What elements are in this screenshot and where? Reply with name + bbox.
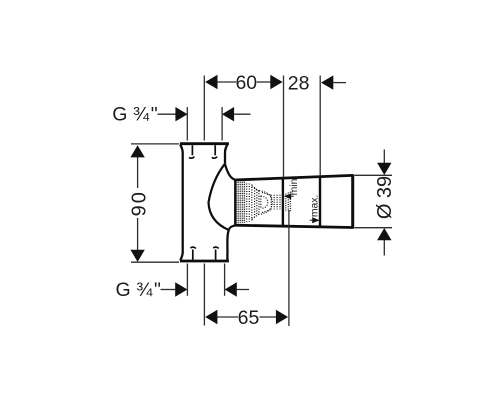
- valve body barrel bottom flange: [180, 260, 229, 263]
- dimension 60 left arrow: [205, 75, 217, 89]
- spindle stem dotted threads: [271, 192, 290, 212]
- boss junction ear curve: [225, 164, 236, 180]
- dimension dia39 up arrow: [377, 228, 391, 240]
- dimension 28 right extension line: [319, 76, 321, 177]
- cartridge left face: [234, 179, 236, 226]
- G3/4 top right extension line: [221, 107, 223, 141]
- dimension 65 right arrow: [276, 310, 288, 324]
- G3/4 top left arrow: [175, 107, 187, 121]
- cartridge min plane line: [282, 178, 284, 226]
- svg-text:90: 90: [129, 190, 151, 216]
- cartridge bottom edge: [234, 225, 353, 227]
- dimension 90 down arrow: [130, 250, 144, 262]
- min arrow: [284, 193, 291, 199]
- boss bottom fillet: [229, 225, 236, 230]
- thread mark hook top right: [214, 145, 216, 155]
- svg-text:65: 65: [238, 307, 260, 329]
- svg-text:min.: min.: [289, 176, 300, 196]
- spindle stipple second band dotted columns: [247, 184, 252, 222]
- dimension dia39 bottom extension line: [355, 227, 393, 229]
- thread mark hook bottom right: [215, 250, 217, 260]
- svg-text:G ¾ ": G ¾ ": [112, 103, 157, 125]
- svg-text:60: 60: [235, 72, 257, 94]
- G3/4 bottom right arrow: [225, 282, 237, 296]
- dimension 65 right extension line: [288, 210, 290, 326]
- dimension 60/28 middle extension line: [283, 76, 285, 178]
- dimension 90 bottom extension line: [131, 261, 179, 263]
- spindle stipple dense band: [236, 180, 245, 223]
- svg-text:28: 28: [288, 73, 310, 95]
- dimension 90 dimension line: [137, 157, 139, 189]
- svg-text:Ø 39: Ø 39: [374, 176, 396, 219]
- spindle dotted bell: [252, 186, 272, 219]
- dimension 60 dimension line tails: [217, 81, 236, 83]
- dimension 60 left extension line: [203, 76, 205, 141]
- G3/4 top left extension line: [186, 107, 188, 141]
- dimension dia39 upper line: [383, 150, 385, 164]
- dimension 28 outside arrow: [321, 75, 333, 89]
- thread mark hook bottom left: [192, 250, 194, 260]
- G3/4 bottom right extension line: [224, 264, 226, 296]
- dimension 90 up arrow: [130, 145, 144, 157]
- dimension 65 left arrow: [205, 310, 217, 324]
- dimension 60 right arrow: [270, 75, 282, 89]
- valve body barrel right edge upper: [225, 145, 227, 164]
- G3/4 bottom left arrow: [175, 282, 187, 296]
- cartridge right face: [351, 174, 354, 228]
- dimension dia39 down arrow: [377, 163, 391, 175]
- dimension 65 left extension line (pipe axis): [203, 264, 205, 326]
- valve body barrel right edge lower: [227, 230, 228, 260]
- dimension 90 top extension line: [131, 143, 179, 145]
- dimension dia39 lower line: [383, 240, 385, 256]
- valve body barrel left edge: [180, 145, 182, 261]
- max arrow: [312, 217, 319, 223]
- svg-text:max.: max.: [310, 195, 321, 218]
- G3/4 top right arrow: [222, 107, 234, 121]
- cartridge top edge: [234, 175, 353, 180]
- dimension 65 dimension line tails: [217, 316, 238, 318]
- thread mark hook top left: [191, 145, 193, 155]
- svg-text:G ¾ ": G ¾ ": [116, 279, 161, 301]
- G3/4 bottom left extension line: [186, 264, 188, 296]
- valve body barrel top flange: [180, 142, 229, 145]
- dimension dia39 top extension line: [355, 174, 393, 176]
- boss saddle curve: [209, 164, 229, 230]
- cartridge max plane line: [319, 177, 321, 227]
